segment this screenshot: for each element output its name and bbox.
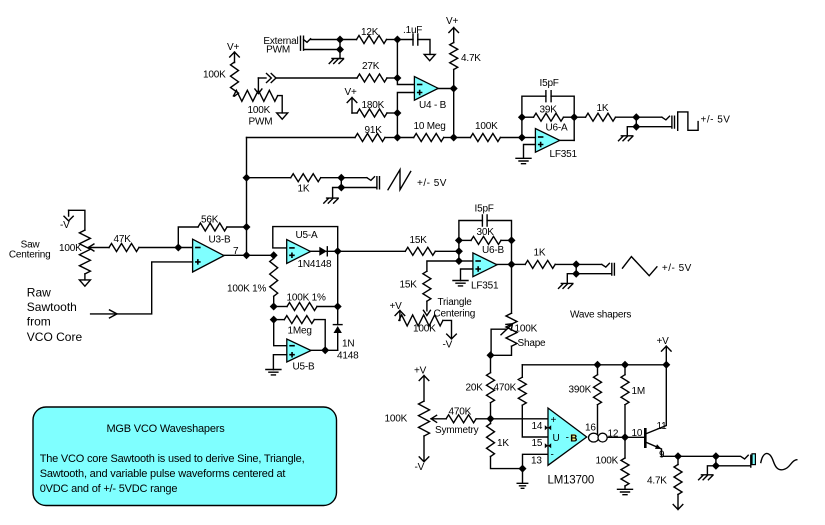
svg-text:+/- 5V: +/- 5V bbox=[662, 263, 692, 274]
wire 100K lm top bbox=[624, 437, 626, 458]
wire U5-B out bbox=[311, 349, 338, 351]
wire 15K to U6-B node bbox=[435, 250, 459, 252]
power V+ 4.7K arrow bbox=[449, 28, 459, 43]
svg-text:Sawtooth, and variable pulse w: Sawtooth, and variable pulse waveforms c… bbox=[40, 468, 286, 480]
wire U5-A out to diode bbox=[311, 250, 320, 252]
svg-text:1N4148: 1N4148 bbox=[298, 259, 332, 270]
node rail/collector bbox=[662, 361, 670, 369]
node U6-B out bbox=[508, 260, 516, 268]
junction ext-tip bbox=[336, 36, 344, 44]
svg-text:V+: V+ bbox=[446, 16, 458, 27]
jack J-ExtPWM (External PWM input) bbox=[301, 36, 341, 50]
capacitor C-.1uF bbox=[413, 34, 418, 45]
ground tri saw pot bbox=[79, 280, 90, 286]
wire out to 1K tri bbox=[512, 263, 526, 265]
pin bowtie 14 bbox=[545, 425, 551, 430]
svg-text:1K: 1K bbox=[534, 248, 546, 259]
node 100K1pc right bbox=[334, 303, 342, 311]
node jack1 tip bbox=[632, 113, 640, 121]
wire 56K to bus bbox=[227, 226, 247, 228]
svg-text:LF351: LF351 bbox=[471, 281, 499, 292]
wire jack1 tip-sleeve bbox=[635, 117, 637, 127]
transistor Q1 base bar bbox=[644, 428, 647, 448]
node U3-B out/bus bbox=[243, 251, 251, 259]
svg-text:91K: 91K bbox=[365, 125, 383, 136]
svg-text:Sawtooth: Sawtooth bbox=[27, 300, 77, 314]
svg-text:15K: 15K bbox=[410, 235, 428, 246]
wire 4.7K bottom arrow bbox=[673, 495, 683, 510]
svg-text:13: 13 bbox=[531, 456, 542, 467]
wire bus corner to 91K bbox=[247, 137, 356, 139]
wire 20K bot bbox=[490, 403, 492, 419]
svg-text:U: U bbox=[553, 433, 560, 444]
resistor R-30K bbox=[471, 236, 501, 244]
wire 27K to node bbox=[387, 77, 397, 79]
resistor R-100K pwm upper bbox=[231, 62, 239, 96]
node jack4 tip bbox=[712, 452, 720, 460]
node 30K l bbox=[455, 236, 463, 244]
info box MGB VCO Waveshapers bbox=[33, 407, 337, 506]
op-amp U5-A bbox=[287, 240, 311, 264]
pot saw wiper arrowhead bbox=[88, 244, 94, 251]
svg-text:10 Meg: 10 Meg bbox=[414, 121, 446, 132]
node 39K right bbox=[570, 113, 578, 121]
resistor R-1K sq bbox=[586, 113, 616, 121]
svg-text:U4 - B: U4 - B bbox=[419, 100, 447, 111]
wire jack2 sleeve to gnd bbox=[333, 188, 342, 199]
svg-text:+/- 5V: +/- 5V bbox=[417, 178, 447, 189]
wire ext tip-sleeve short bbox=[339, 40, 341, 50]
wire U6-B out bbox=[497, 263, 512, 265]
resistor R-10Meg bbox=[414, 134, 444, 142]
resistor R-390K bbox=[594, 375, 602, 405]
resistor R-1K saw bbox=[291, 174, 321, 182]
wire 4.7K down bbox=[453, 70, 455, 138]
wire 1K to jack2 bbox=[321, 177, 342, 179]
wire U6-A plus to gnd bbox=[524, 145, 536, 159]
wire 1M bottom bbox=[624, 405, 626, 438]
svg-text:390K: 390K bbox=[569, 385, 592, 396]
wire 470K h to node bbox=[476, 418, 490, 420]
resistor R-100K1pc v bbox=[270, 258, 278, 296]
transistor Q1 collector bbox=[647, 365, 667, 434]
wire 100K1pc h lead r bbox=[317, 306, 338, 308]
svg-text:+/- 5V: +/- 5V bbox=[701, 114, 731, 125]
potentiometer 100K saw centering body bbox=[79, 230, 90, 274]
node 1Meg left bbox=[270, 316, 278, 324]
wire node D to 100K bbox=[454, 137, 471, 139]
svg-text:U6-A: U6-A bbox=[546, 123, 569, 134]
wire out up to 1K bbox=[574, 116, 585, 118]
svg-text:100K: 100K bbox=[596, 456, 619, 467]
wire 100K lm bot bbox=[624, 486, 626, 489]
ground earth U5-B bbox=[266, 370, 281, 375]
resistor R-1M bbox=[621, 375, 629, 405]
svg-text:470K: 470K bbox=[449, 407, 472, 418]
svg-text:LF351: LF351 bbox=[550, 149, 578, 160]
svg-text:12K: 12K bbox=[361, 27, 379, 38]
power V+ pwm pot arrow bbox=[230, 52, 240, 63]
power +V lm arrow bbox=[662, 346, 672, 365]
node rail/1M bbox=[621, 361, 629, 369]
wire 4.7K top bbox=[677, 456, 679, 464]
node 56K/bus bbox=[243, 223, 251, 231]
wire U5-A feedback rect bbox=[273, 227, 338, 252]
wire jack4 sleeve gnd bbox=[707, 466, 716, 475]
potentiometer 100K triangle centering body bbox=[399, 315, 443, 326]
wire 1Meg lead l bbox=[274, 319, 285, 321]
svg-text:PWM: PWM bbox=[249, 117, 273, 128]
capacitor C-I5pF U6-A bbox=[546, 91, 551, 102]
svg-text:1K: 1K bbox=[597, 103, 609, 114]
svg-text:47K: 47K bbox=[114, 234, 132, 245]
wire pot bottom bbox=[84, 274, 86, 280]
wire chevron to 27K bbox=[277, 77, 358, 79]
node jack3 tip bbox=[572, 260, 580, 268]
node B (180K/plus) bbox=[393, 109, 401, 117]
wire to 15K bbox=[338, 250, 406, 252]
svg-text:4.7K: 4.7K bbox=[461, 53, 481, 64]
op-amp U4-B bbox=[414, 77, 438, 101]
diode D-1N4148 vertical bbox=[333, 324, 342, 326]
svg-text:7: 7 bbox=[233, 246, 239, 257]
wire gnd stub lm bbox=[522, 469, 524, 484]
wire U6-B fb loop bbox=[459, 221, 512, 265]
ground chassis jack1 bbox=[619, 136, 633, 141]
node E (U6-A minus) bbox=[518, 134, 526, 142]
svg-text:100K: 100K bbox=[515, 324, 538, 335]
svg-text:100K 1%: 100K 1% bbox=[227, 284, 266, 295]
svg-text:1K: 1K bbox=[298, 184, 310, 195]
power +V sym arrow bbox=[419, 376, 429, 402]
pot TC wiper arrow down bbox=[423, 301, 430, 315]
wire 1K v top bbox=[490, 419, 492, 424]
resistor R-100K1pc h bbox=[287, 303, 317, 311]
svg-text:180K: 180K bbox=[362, 100, 385, 111]
wire wiper to 47K bbox=[88, 247, 109, 249]
wire 100K1pc h lead l bbox=[274, 306, 287, 308]
svg-text:9: 9 bbox=[659, 450, 665, 461]
resistor R-91K bbox=[355, 134, 385, 142]
svg-text:16: 16 bbox=[585, 423, 596, 434]
wire bus to 1K saw bbox=[247, 177, 291, 179]
svg-text:PWM: PWM bbox=[266, 45, 290, 56]
svg-text:1N: 1N bbox=[342, 339, 354, 350]
resistor R-100K mid bbox=[470, 134, 500, 142]
wire minus node to 15K v bbox=[427, 261, 459, 271]
wire pot right to gnd bbox=[278, 96, 283, 113]
svg-text:14: 14 bbox=[532, 421, 543, 432]
diode D-1N4148 (U5-A out) bbox=[319, 247, 327, 256]
ground tri pwm pot bbox=[277, 113, 288, 119]
power V+ 180K arrow bbox=[347, 98, 357, 114]
svg-text:V+: V+ bbox=[345, 87, 357, 98]
svg-text:100K: 100K bbox=[385, 414, 408, 425]
potentiometer 100K Shape body bbox=[506, 313, 517, 346]
pin bowtie 15 bbox=[545, 443, 551, 448]
wire node A to C1 bbox=[397, 39, 413, 41]
svg-text:+: + bbox=[551, 415, 557, 426]
capacitor C-I5pF U6-B bbox=[482, 215, 487, 226]
wire 30K lead r bbox=[501, 239, 512, 241]
jack4 cyan plate bbox=[752, 454, 755, 465]
resistor R-100K lm bbox=[621, 458, 629, 486]
svg-text:100K: 100K bbox=[475, 121, 498, 132]
node 1Meg/out bbox=[321, 346, 329, 354]
node 15K arrive bbox=[455, 247, 463, 255]
wire 56K feedback bbox=[178, 227, 198, 248]
wire 390K top bbox=[597, 365, 599, 375]
resistor R-4.7K top bbox=[450, 43, 458, 70]
op-amp U5-B bbox=[287, 339, 311, 362]
wire 100K1pc to node bbox=[273, 255, 275, 258]
svg-text:0VDC and of +/- 5VDC range: 0VDC and of +/- 5VDC range bbox=[40, 483, 178, 495]
svg-text:from: from bbox=[27, 314, 51, 328]
node D (10Meg/100K) bbox=[450, 134, 458, 142]
node emitter/4.7K bbox=[674, 452, 682, 460]
wire shape wiper down bbox=[491, 329, 506, 355]
wire pin14 bbox=[491, 418, 549, 420]
wire v+ to 180K bbox=[352, 112, 357, 114]
wire sym pot bottom to -V bbox=[419, 436, 429, 462]
node jack2 tip bbox=[337, 174, 345, 182]
resistor R-1K tri bbox=[525, 260, 555, 268]
wire 470K v top bbox=[521, 365, 523, 377]
resistor R-27K bbox=[357, 74, 387, 82]
output link ellipses pin16 bbox=[589, 433, 599, 442]
wire 100K1pc bot bbox=[273, 296, 275, 306]
svg-text:100K: 100K bbox=[203, 70, 226, 81]
node rail/390K bbox=[594, 361, 602, 369]
wire jack4 tip-sleeve bbox=[715, 456, 717, 466]
wire main bus vertical bbox=[246, 138, 248, 256]
svg-text:Centering: Centering bbox=[9, 249, 51, 260]
svg-text:11: 11 bbox=[657, 421, 668, 432]
svg-text:100K: 100K bbox=[59, 243, 82, 254]
node 39K left bbox=[518, 113, 526, 121]
wire 20K top bbox=[490, 355, 492, 372]
op-amp U6-B bbox=[473, 253, 497, 277]
potentiometer 100K PWM body bbox=[234, 90, 278, 101]
wire jack3 tip-sleeve bbox=[575, 264, 577, 273]
wire U6-B minus bbox=[459, 260, 473, 262]
ground chassis jack2 bbox=[324, 198, 338, 203]
wire +V rail LM13700 bbox=[522, 364, 666, 366]
node jack2 sleeve bbox=[337, 184, 345, 192]
wire jack2 tip-sleeve bbox=[340, 178, 342, 188]
wire U3-B plus input from Raw Sawtooth bbox=[91, 262, 193, 314]
svg-text:U6-B: U6-B bbox=[482, 245, 505, 256]
wire 100K to U6-A bbox=[500, 137, 522, 139]
node 100K1pc left bbox=[270, 303, 278, 311]
resistor R-47K bbox=[109, 244, 139, 252]
node pin13/gnd bbox=[519, 465, 527, 473]
svg-text:U3-B: U3-B bbox=[209, 234, 232, 245]
wire 1K to jack3 bbox=[555, 263, 576, 265]
wire U4-B out bbox=[438, 88, 454, 90]
wire 1M top bbox=[624, 365, 626, 375]
wire 39K lead r bbox=[564, 116, 575, 118]
node jack1 sleeve bbox=[632, 123, 640, 131]
transistor Q1 emitter bbox=[647, 443, 678, 457]
node U5-A diode out bbox=[334, 247, 342, 255]
resistor R-1K v bbox=[487, 424, 495, 457]
waveform square wave glyph bbox=[678, 112, 698, 130]
wire U5-B minus vertical bbox=[274, 320, 287, 346]
potentiometer 100K symmetry body bbox=[419, 401, 430, 436]
node 1M/out bbox=[621, 433, 629, 441]
wire pin12 out bbox=[608, 436, 645, 438]
pot PWM wiper arrow down bbox=[255, 78, 262, 94]
op-amp U3-B bbox=[193, 239, 224, 272]
jack J-sine out bbox=[716, 455, 751, 467]
wire U6-A minus bbox=[522, 137, 536, 139]
svg-text:15: 15 bbox=[532, 438, 543, 449]
svg-text:1M: 1M bbox=[632, 386, 646, 397]
wire -V to pot top bbox=[69, 210, 85, 230]
wire ext to 12K bbox=[340, 39, 357, 41]
svg-text:LM13700: LM13700 bbox=[548, 475, 595, 487]
resistor R-12K bbox=[357, 36, 387, 44]
svg-text:4148: 4148 bbox=[337, 351, 359, 362]
svg-text:.1uF: .1uF bbox=[403, 25, 422, 36]
ground earth U6-A bbox=[516, 158, 531, 163]
svg-text:4.7K: 4.7K bbox=[647, 476, 667, 487]
node U6-B minus bbox=[455, 257, 463, 265]
wire tc pot right to -V bbox=[443, 320, 456, 339]
wire column U5-A out down bbox=[337, 251, 339, 324]
svg-text:+V: +V bbox=[657, 336, 670, 347]
wire 470K v bottom to pin15 bbox=[522, 405, 548, 437]
node U4-B out bbox=[450, 85, 458, 93]
wire node A down to U4-B minus bbox=[397, 40, 414, 85]
pot shape wiper diagonal arrow bbox=[501, 324, 513, 335]
node 30K r bbox=[508, 236, 516, 244]
jack J-tri out bbox=[576, 263, 614, 275]
svg-text:I5pF: I5pF bbox=[475, 204, 494, 215]
node U5-A plus bbox=[270, 251, 278, 259]
node C (91K/10Meg) bbox=[393, 134, 401, 142]
svg-text:100K 1%: 100K 1% bbox=[287, 293, 326, 304]
wire U6-A feedback loop bbox=[522, 96, 574, 140]
wire U4-B plus vertical bbox=[397, 93, 414, 138]
wire 39K lead l bbox=[522, 116, 534, 118]
op-amp U-LM13700 bbox=[548, 408, 587, 465]
ground earth 100K lm bbox=[618, 489, 633, 494]
wire 12K to node A bbox=[387, 39, 398, 41]
svg-text:10: 10 bbox=[632, 428, 643, 439]
svg-text:27K: 27K bbox=[362, 61, 380, 72]
wire U6-A out bbox=[560, 139, 575, 141]
svg-text:470K: 470K bbox=[494, 383, 517, 394]
svg-text:Centering: Centering bbox=[434, 309, 476, 320]
wire jack1 sleeve to gnd bbox=[627, 127, 636, 136]
node jack4 sleeve bbox=[712, 462, 720, 470]
wire emitter to jack4 bbox=[678, 455, 716, 457]
wire 47K to U3-B minus bbox=[139, 247, 193, 249]
resistor R-1Meg bbox=[284, 316, 314, 324]
resistor R-15K v bbox=[423, 271, 431, 301]
wire wiper to 27K bbox=[258, 77, 266, 79]
op-amp U6-A bbox=[535, 129, 559, 153]
resistor R-470K h bbox=[446, 415, 476, 423]
jack J-saw out bbox=[341, 177, 379, 189]
svg-text:-V: -V bbox=[60, 220, 70, 231]
waveform triangle glyph bbox=[623, 257, 657, 276]
wire shape bottom bbox=[491, 346, 512, 355]
yellow highlight B counters bbox=[571, 434, 577, 441]
svg-text:MGB VCO Waveshapers: MGB VCO Waveshapers bbox=[106, 423, 225, 435]
wire U6-B out down to shape bbox=[511, 264, 513, 313]
resistor R-56K bbox=[198, 223, 227, 231]
pot sym wiper arrowhead bbox=[431, 415, 437, 422]
waveform sine glyph bbox=[761, 453, 797, 469]
resistor R-39K bbox=[534, 113, 564, 121]
wire wiper to 470K h bbox=[431, 418, 446, 420]
waveform sawtooth glyph bbox=[388, 170, 411, 190]
junction ext-sleeve bbox=[336, 46, 344, 54]
wiper chevrons >> bbox=[267, 74, 277, 83]
svg-text:100K: 100K bbox=[413, 324, 436, 335]
svg-text:1K: 1K bbox=[497, 438, 509, 449]
svg-text:Triangle: Triangle bbox=[438, 297, 473, 308]
svg-text:V+: V+ bbox=[227, 42, 239, 53]
node shape/20K bbox=[487, 351, 495, 359]
svg-text:-V: -V bbox=[443, 340, 453, 351]
power -V saw centering arrow bbox=[64, 210, 73, 221]
svg-text:20K: 20K bbox=[466, 383, 484, 394]
ground tri .1uF bbox=[424, 54, 435, 60]
svg-text:-V: -V bbox=[415, 462, 425, 473]
jack J-square out bbox=[636, 116, 674, 128]
svg-text:VCO Core: VCO Core bbox=[27, 330, 83, 344]
input arrowhead raw sawtooth bbox=[110, 310, 118, 318]
node 27K junction bbox=[393, 74, 401, 82]
wire node C to 10Meg bbox=[397, 137, 413, 139]
wire 1K to jack1 bbox=[616, 116, 637, 118]
wire U5-B plus to gnd bbox=[273, 355, 286, 370]
wire ext sleeve to ground bbox=[339, 50, 341, 59]
svg-text:Shape: Shape bbox=[518, 338, 547, 349]
ground chassis ext-pwm bbox=[329, 59, 343, 64]
svg-text:B: B bbox=[570, 433, 577, 444]
node jack3 sleeve bbox=[572, 270, 580, 278]
wire 100K to pot bbox=[234, 95, 235, 97]
svg-text:The VCO core Sawtooth is used: The VCO core Sawtooth is used to derive … bbox=[40, 453, 305, 465]
power +V tc arrow bbox=[395, 311, 405, 321]
wire 390K bottom bbox=[597, 405, 599, 434]
ground chassis jack4 bbox=[699, 475, 713, 480]
resistor R-470K v bbox=[518, 377, 526, 405]
resistor R-4.7K out bbox=[674, 465, 682, 495]
wire U6-B plus to gnd bbox=[461, 269, 473, 281]
svg-text:Symmetry: Symmetry bbox=[435, 425, 479, 436]
wire pin13 bbox=[523, 454, 549, 468]
wire 1K v bottom to gnd node bbox=[491, 457, 523, 469]
svg-text:U5-A: U5-A bbox=[296, 230, 319, 241]
wire 30K lead l bbox=[459, 239, 471, 241]
wire 10Meg to node D bbox=[444, 137, 454, 139]
wire U3-B output bbox=[224, 254, 274, 256]
svg-text:1Meg: 1Meg bbox=[288, 326, 312, 337]
svg-text:-: - bbox=[566, 433, 569, 444]
wire 1Meg to output bbox=[314, 320, 325, 351]
ground earth U6-B bbox=[453, 281, 468, 286]
svg-text:30K: 30K bbox=[477, 227, 495, 238]
svg-text:I5pF: I5pF bbox=[540, 78, 559, 89]
svg-text:U5-B: U5-B bbox=[293, 362, 316, 373]
resistor R-15K h bbox=[405, 247, 435, 255]
